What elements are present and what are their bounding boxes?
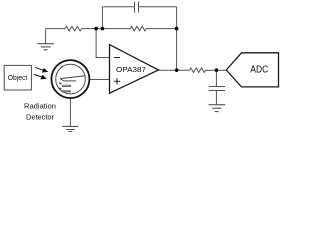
- radiation arrow 1: [35, 68, 47, 73]
- ground G1: [37, 44, 53, 50]
- wire: feedback top branch left: [102, 6, 134, 8]
- detector inner symbol: [60, 76, 85, 81]
- wire: inverting input: [96, 29, 109, 58]
- wire: C2 to ground G2: [215, 91, 217, 105]
- Object box: [4, 65, 31, 90]
- wire: R3 to ADC: [206, 69, 227, 71]
- op-amp U1 OPA387: [110, 45, 159, 94]
- wire: op-amp output to R3: [159, 69, 190, 71]
- radiation detector inner circle: [56, 64, 86, 94]
- resistor R2 feedback: [130, 26, 146, 31]
- wire: output node down to C2: [215, 70, 217, 86]
- wire: feedback top branch right: [139, 6, 177, 8]
- wire: feedback left vertical: [101, 7, 103, 29]
- ADC block: [226, 53, 278, 87]
- node: inverting input tap: [94, 27, 98, 31]
- op-amp plus sign: [114, 78, 120, 84]
- svg-text:Object: Object: [8, 73, 28, 82]
- wire: R1 to inverting node: [81, 28, 102, 30]
- wire: detector to ground stub: [69, 98, 71, 126]
- radiation detector D1 outer circle: [51, 60, 89, 98]
- wire: feedback lower branch right: [146, 28, 176, 30]
- wire: bias input from ground corner to R1: [46, 28, 66, 30]
- wire: non-inverting input from detector: [89, 79, 110, 81]
- op-amp minus sign: [114, 57, 120, 59]
- resistor R3: [190, 68, 206, 73]
- svg-text:ADC: ADC: [250, 64, 268, 76]
- resistor R1: [65, 26, 81, 31]
- ground G3: [62, 126, 78, 131]
- node: feedback right: [175, 27, 179, 31]
- svg-text:OPA387: OPA387: [116, 65, 146, 74]
- node: RC filter: [215, 68, 219, 72]
- radiation arrow 2: [34, 74, 46, 79]
- capacitor C1 plates: [135, 2, 139, 13]
- wire: feedback lower branch left: [102, 28, 130, 30]
- node: output: [175, 68, 179, 72]
- capacitor C2 plates: [209, 87, 225, 91]
- wire: feedback right vertical down to output node: [176, 7, 178, 70]
- svg-text:Detector: Detector: [26, 112, 54, 121]
- svg-text:Radiation: Radiation: [24, 102, 56, 111]
- ground G1 stub: [45, 29, 47, 44]
- node: feedback left: [101, 27, 105, 31]
- ground G2: [209, 105, 226, 112]
